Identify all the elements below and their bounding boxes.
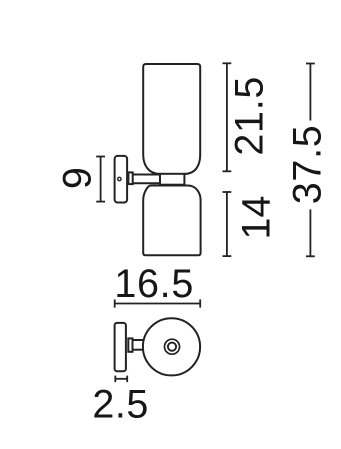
label 2.5 (92, 383, 148, 427)
label 14 (234, 196, 278, 240)
dimension line 2.5 (plate depth) (115, 376, 127, 383)
wall plate (bottom view) (115, 323, 126, 371)
shade circle (bottom view) (143, 318, 200, 375)
connector between shades (160, 174, 184, 185)
label 37.5 (286, 125, 330, 205)
wall plate (front view) (115, 156, 128, 203)
label 16.5 (114, 262, 194, 306)
arm (bottom view) (133, 340, 145, 350)
dimension line 14 (lower shade) (223, 192, 232, 256)
upper shade (front view cylinder) (143, 64, 200, 174)
label 21.5 (227, 76, 271, 156)
svg-text:37.5: 37.5 (286, 125, 330, 205)
dimension line 16.5 (bottom view width) (115, 299, 201, 307)
arm (front view) (133, 175, 160, 184)
arm flange at plate (128, 172, 132, 184)
svg-text:9: 9 (55, 167, 99, 189)
arm flange (bottom view) (128, 338, 132, 351)
dimension line 9 (plate height) (96, 157, 105, 202)
inner hub inner ring (bottom view) (168, 343, 176, 351)
svg-text:16.5: 16.5 (114, 262, 194, 306)
svg-text:21.5: 21.5 (227, 76, 271, 156)
dimension line 37.5 (total height, broken by label) (306, 64, 315, 257)
dimension line 21.5 (upper shade) (223, 63, 232, 171)
lower shade (front view cylinder) (143, 186, 200, 256)
label 9 (55, 167, 99, 189)
inner hub outer ring (bottom view) (165, 339, 180, 354)
svg-text:2.5: 2.5 (92, 383, 148, 427)
svg-text:14: 14 (234, 196, 278, 240)
screw on wall plate (118, 177, 121, 180)
